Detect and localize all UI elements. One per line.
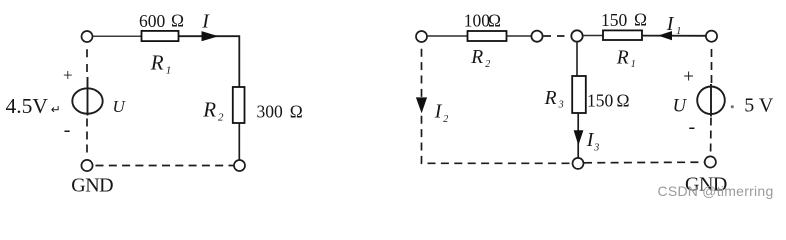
svg-text:R: R xyxy=(150,51,164,75)
svg-text:-: - xyxy=(64,119,71,141)
wire: dashed left vertical lower xyxy=(86,119,88,154)
wire: node to R1' xyxy=(583,35,603,37)
node: bottom-right of right circuit xyxy=(705,156,716,167)
wire: R1' to top-right node xyxy=(642,35,707,37)
node: middle-left node xyxy=(531,31,542,42)
resistor R3 (150 ohm) xyxy=(572,76,586,113)
wire: R2 down to bottom-right node xyxy=(238,123,240,160)
svg-text:1: 1 xyxy=(166,64,172,76)
voltage source U (5 V): stem xyxy=(710,84,712,117)
wire: dashed right vertical upper xyxy=(711,49,713,85)
svg-text:2: 2 xyxy=(218,111,224,123)
resistor R2 (100 ohm, right circuit) xyxy=(468,31,507,41)
current arrow I xyxy=(202,31,219,41)
svg-text:I: I xyxy=(666,13,675,35)
svg-text:1: 1 xyxy=(631,59,636,70)
svg-text:Ω: Ω xyxy=(290,102,303,122)
wire: dashed left vertical upper xyxy=(86,49,88,77)
node: bottom-center of right circuit xyxy=(573,158,584,169)
svg-text:300: 300 xyxy=(257,102,284,122)
svg-text:150: 150 xyxy=(601,10,628,30)
node: top-right of right circuit xyxy=(706,31,717,42)
current arrow I2 (pointing down) xyxy=(416,97,427,113)
node: bottom-right of left circuit xyxy=(234,160,245,171)
wire: short dashed link between middle nodes xyxy=(544,35,572,37)
svg-text:CSDN @timerring: CSDN @timerring xyxy=(658,183,774,199)
resistor R1 (150 ohm, right circuit) xyxy=(603,30,642,40)
wire: dashed bottom right segment xyxy=(584,161,705,164)
svg-text:I: I xyxy=(201,11,210,33)
svg-text:Ω: Ω xyxy=(634,10,647,30)
wire: dashed bottom of left circuit xyxy=(96,165,235,167)
wire: center node down to R3 xyxy=(576,42,578,77)
svg-text:+: + xyxy=(63,65,73,84)
svg-text:4.5V: 4.5V xyxy=(6,94,49,118)
node: bottom-left (GND node) xyxy=(81,160,92,171)
wire: R2' to middle node xyxy=(507,35,532,37)
svg-text:3: 3 xyxy=(558,100,564,111)
svg-text:U: U xyxy=(113,97,127,116)
svg-text:Ω: Ω xyxy=(171,11,184,31)
svg-text:5 V: 5 V xyxy=(744,95,774,117)
svg-text:2: 2 xyxy=(485,59,490,70)
wire: dashed left vertical + bottom-left segment xyxy=(422,49,573,164)
node: top-left of left circuit xyxy=(82,31,93,42)
node: center top node xyxy=(571,30,582,41)
svg-text:150: 150 xyxy=(587,91,614,111)
svg-text:Ω: Ω xyxy=(617,90,630,110)
svg-text:R: R xyxy=(470,47,483,68)
svg-text:-: - xyxy=(689,116,696,138)
svg-text:R: R xyxy=(202,98,216,122)
svg-text:U: U xyxy=(673,97,688,117)
node: top-left of right circuit xyxy=(416,31,427,42)
svg-text:600: 600 xyxy=(139,11,166,31)
svg-text:↵: ↵ xyxy=(51,102,61,116)
resistor R1 (600 ohm) xyxy=(142,31,179,41)
small dot after source xyxy=(731,105,734,108)
wire: R1 to top-right corner and down to R2 xyxy=(179,36,240,87)
current arrow I1 (pointing left) xyxy=(658,31,672,40)
svg-text:3: 3 xyxy=(593,143,599,154)
svg-text:100: 100 xyxy=(464,11,491,31)
wire: dashed right vertical lower xyxy=(710,118,712,152)
wire: R3 down to bottom-center node xyxy=(577,113,579,158)
svg-text:2: 2 xyxy=(443,114,448,125)
svg-text:R: R xyxy=(616,48,629,69)
svg-text:+: + xyxy=(683,66,694,87)
svg-text:1: 1 xyxy=(676,26,681,37)
voltage source U (5 V): circle xyxy=(697,87,725,115)
wire: top wire node to R1 xyxy=(93,35,142,37)
wire: node to R2' xyxy=(427,35,468,37)
svg-text:Ω: Ω xyxy=(488,11,501,31)
voltage source U (4.5V): circle xyxy=(72,88,102,113)
current arrow I3 (pointing down) xyxy=(574,130,584,145)
svg-text:GND: GND xyxy=(71,174,113,196)
voltage source U (4.5V): stem xyxy=(87,77,89,116)
resistor R2 (300 ohm) xyxy=(233,87,245,123)
svg-text:I: I xyxy=(434,101,443,123)
svg-text:R: R xyxy=(544,88,557,109)
